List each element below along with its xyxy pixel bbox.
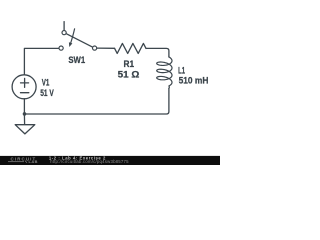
svg-text:510 mH: 510 mH: [179, 75, 209, 86]
svg-text:51 V: 51 V: [40, 88, 54, 99]
svg-text:SW1: SW1: [68, 55, 85, 66]
svg-text:R1: R1: [124, 59, 135, 70]
svg-text:V1: V1: [42, 77, 50, 88]
svg-text:51 Ω: 51 Ω: [118, 70, 140, 81]
svg-text:http://circuitlab.com/c/pq4sw3: http://circuitlab.com/c/pq4sw3b85775: [50, 159, 129, 164]
svg-text:LAB: LAB: [29, 159, 39, 164]
